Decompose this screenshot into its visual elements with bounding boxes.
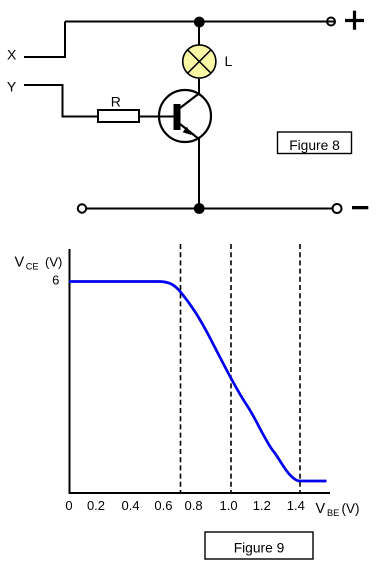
svg-text:(V): (V): [45, 254, 62, 269]
junction bottom node: [194, 203, 205, 214]
svg-text:0.4: 0.4: [122, 498, 140, 513]
lamp L: [183, 45, 216, 78]
svg-text:X: X: [7, 47, 17, 63]
svg-text:BE: BE: [327, 508, 339, 518]
label VBE axis: [316, 501, 360, 518]
terminal bottom left: [78, 204, 86, 212]
resistor R: [98, 110, 139, 122]
svg-text:V: V: [316, 501, 326, 517]
wire junction to lamp: [198, 22, 200, 46]
graph y-axis: [69, 249, 71, 494]
svg-text:0: 0: [65, 498, 72, 513]
svg-text:1.2: 1.2: [253, 498, 271, 513]
dashed line 1.0: [230, 244, 232, 493]
curve VCE vs VBE: [69, 282, 327, 482]
svg-text:CE: CE: [26, 261, 39, 271]
figure 9 caption box: [205, 532, 313, 559]
svg-text:L: L: [225, 53, 233, 69]
svg-text:0.8: 0.8: [185, 498, 203, 513]
wire lamp to collector: [198, 79, 200, 94]
wire emitter down: [198, 139, 200, 209]
dashed line 0.7: [180, 244, 182, 493]
wire bottom rail: [86, 208, 333, 210]
svg-text:Y: Y: [7, 78, 17, 94]
terminal positive supply: [327, 18, 335, 26]
dashed line 1.4: [299, 244, 301, 493]
svg-text:V: V: [15, 254, 25, 270]
svg-text:(V): (V): [342, 501, 360, 516]
svg-text:1.0: 1.0: [220, 498, 238, 513]
svg-text:Figure 9: Figure 9: [234, 541, 285, 556]
label plus sign: [345, 11, 364, 30]
svg-text:6: 6: [52, 273, 59, 288]
wire top rail: [65, 21, 335, 23]
svg-text:Figure 8: Figure 8: [289, 138, 340, 153]
svg-text:0.2: 0.2: [87, 498, 105, 513]
graph x-axis: [69, 492, 331, 494]
svg-text:R: R: [111, 94, 121, 110]
label VCE axis: [15, 254, 63, 271]
wire Y input lead: [24, 85, 98, 117]
wire X input lead: [24, 22, 65, 58]
label minus sign: [352, 206, 368, 209]
svg-text:1.4: 1.4: [287, 498, 305, 513]
terminal negative supply: [333, 204, 342, 213]
svg-text:0.6: 0.6: [154, 498, 172, 513]
wire resistor to base: [139, 116, 174, 118]
transistor Q1: [159, 90, 211, 142]
figure 8 caption box: [278, 132, 352, 154]
junction top node: [194, 17, 205, 28]
